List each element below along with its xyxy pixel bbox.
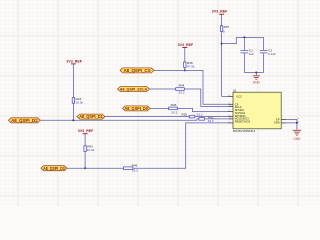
svg-text:R39: R39	[181, 112, 187, 116]
wire CS row	[154, 70, 228, 104]
wire C1 top	[243, 37, 245, 50]
resistor R41	[84, 145, 95, 152]
node VCC rail junction	[221, 43, 223, 45]
svg-text:33.2: 33.2	[132, 169, 138, 173]
wire to chip ground	[296, 123, 298, 130]
wire R57 down to VCC rail junction	[221, 32, 223, 97]
node CS pull-up junction	[184, 69, 186, 71]
capacitor C2	[260, 49, 276, 57]
svg-text:3V3_REF: 3V3_REF	[212, 10, 228, 14]
wire C2 bottom	[263, 53, 265, 72]
wire R38 to CS row	[184, 67, 186, 70]
wire D3 to R46	[67, 167, 124, 169]
wire R43 to D2 row	[72, 103, 74, 120]
wire junction to caps rail	[222, 37, 264, 43]
wire R45 to SI pin	[177, 108, 228, 111]
svg-text:33.2: 33.2	[208, 119, 214, 123]
wire 3V3_REF to R38	[184, 48, 186, 63]
svg-text:47.5k: 47.5k	[187, 64, 195, 68]
svg-text:A8_QSPI_D1: A8_QSPI_D1	[79, 114, 103, 119]
svg-text:33.2: 33.2	[171, 111, 177, 115]
port A8_QSPI_D3	[41, 166, 67, 171]
wire R44 to SCLK pin	[184, 89, 228, 106]
svg-text:1uF: 1uF	[249, 52, 254, 56]
node bottom rail	[255, 72, 257, 74]
wire D0 to R45	[150, 107, 169, 109]
power port 3V3_REF (above R41)	[78, 129, 94, 134]
svg-text:R46: R46	[132, 163, 138, 167]
wire 3V3_REF to R41	[84, 134, 86, 146]
svg-text:0: 0	[223, 29, 225, 33]
svg-text:A8_QSPI_SCLK: A8_QSPI_SCLK	[120, 87, 148, 92]
svg-text:A8_QSPI_CS: A8_QSPI_CS	[124, 68, 151, 73]
pin names right	[274, 117, 280, 124]
port A8_QSPI_CS	[120, 68, 154, 73]
wire to ground	[255, 73, 257, 76]
svg-text:0.1uF: 0.1uF	[268, 52, 276, 56]
svg-text:MX25V1635FZUI: MX25V1635FZUI	[233, 129, 256, 133]
wire R39 to SO pin	[195, 116, 228, 118]
node cap C1 top	[243, 36, 245, 38]
wire caps bottom rail	[244, 72, 263, 74]
wire D1 to R39	[105, 116, 189, 118]
power port 3V3_REF (top, above R57)	[212, 10, 228, 15]
resistor R42	[199, 116, 214, 123]
power port 3V3_REF (above R43)	[66, 59, 82, 64]
wire 3V3_REF to R43	[72, 64, 74, 98]
wire D2 row	[40, 119, 199, 120]
svg-text:3V3_REF: 3V3_REF	[78, 129, 94, 133]
wire R42 to WP pin	[205, 118, 229, 120]
svg-text:GND: GND	[253, 81, 261, 85]
ground (caps)	[253, 76, 260, 79]
svg-text:33.2: 33.2	[196, 113, 202, 117]
wire R46 to HOLD pin	[133, 123, 228, 168]
node D3 pull-up junction	[84, 167, 86, 169]
svg-text:U1: U1	[233, 88, 237, 92]
svg-text:A8_QSPI_D3: A8_QSPI_D3	[43, 166, 65, 171]
svg-text:R57: R57	[224, 25, 230, 29]
svg-text:GND: GND	[274, 121, 280, 125]
power port 3V3_REF (above R38)	[178, 43, 194, 48]
wire C1 bottom	[243, 53, 245, 72]
wire C2 top	[263, 37, 265, 50]
op chip U1 pin stubs	[228, 97, 286, 123]
svg-text:3V3_REF: 3V3_REF	[66, 59, 82, 63]
resistor R45	[169, 103, 178, 115]
port A8_QSPI_D1	[77, 114, 105, 119]
port A8_QSPI_SCLK	[118, 87, 150, 92]
resistor R39	[181, 112, 202, 118]
capacitor C1	[241, 49, 255, 57]
svg-text:R44: R44	[179, 83, 185, 87]
svg-text:A8_QSPI_D2: A8_QSPI_D2	[11, 118, 38, 123]
resistor R46	[124, 163, 139, 172]
svg-text:33.2: 33.2	[178, 90, 184, 94]
svg-text:VCC: VCC	[236, 95, 242, 99]
node EP-GND tie	[296, 122, 298, 124]
svg-text:RESET/SIO3: RESET/SIO3	[235, 120, 251, 124]
resistor R43	[72, 97, 83, 105]
pin names left	[235, 102, 251, 123]
resistor R44	[176, 83, 185, 94]
wire 3V3_REF to R57	[221, 14, 223, 26]
svg-text:GND: GND	[293, 137, 301, 141]
node D2 pull-up junction	[72, 119, 74, 121]
wire EP/GND to ground	[286, 120, 297, 123]
ground (chip)	[293, 130, 302, 135]
port A8_QSPI_D0	[123, 106, 151, 111]
wire VCC into chip	[222, 96, 228, 98]
svg-text:3V3_REF: 3V3_REF	[178, 43, 194, 47]
IC U1 body	[233, 92, 281, 129]
svg-text:A8_QSPI_D0: A8_QSPI_D0	[124, 106, 148, 111]
svg-text:10.0k: 10.0k	[87, 148, 95, 152]
svg-text:R45: R45	[171, 103, 177, 107]
pin numbers	[229, 95, 300, 123]
port A8_QSPI_D2	[8, 118, 40, 123]
wire R41 to D3 row	[84, 151, 86, 168]
wire SCLK to R44	[149, 88, 175, 90]
resistor R38	[184, 61, 195, 68]
svg-text:10.0k: 10.0k	[76, 100, 84, 104]
resistor R57	[220, 25, 229, 34]
